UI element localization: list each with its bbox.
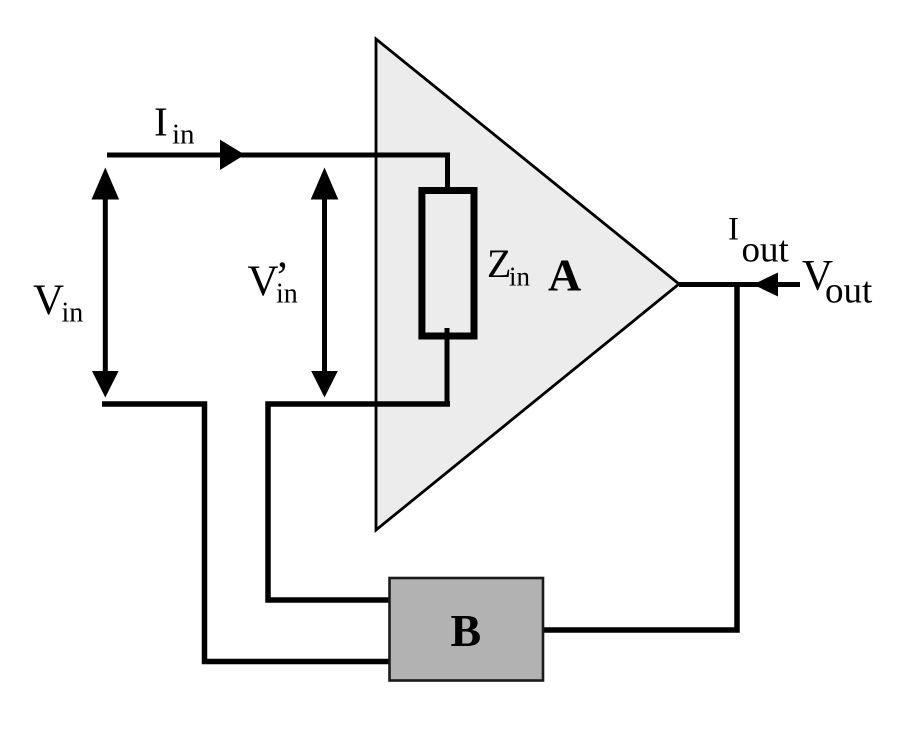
svg-text:in: in xyxy=(276,279,298,310)
feedback network B (box) xyxy=(390,578,544,681)
arrowhead I_out current direction (pointing left) xyxy=(753,273,778,297)
V_in measurement arrow (double headed) xyxy=(103,190,108,378)
svg-text:Z: Z xyxy=(487,241,511,286)
svg-text:V: V xyxy=(33,277,64,324)
wire V'_in bottom node to feedback network B input xyxy=(268,404,450,600)
svg-text:A: A xyxy=(548,250,581,301)
wire I_in input horizontal into Z_in top xyxy=(107,155,448,193)
svg-text:B: B xyxy=(451,605,482,656)
svg-text:out: out xyxy=(742,230,790,271)
op-amp A (triangle body) xyxy=(376,39,679,530)
wire V_in bottom to feedback path xyxy=(102,404,390,662)
wire feedback from output node down to B xyxy=(544,284,737,630)
svg-text:in: in xyxy=(509,262,531,292)
svg-text:in: in xyxy=(62,298,84,329)
svg-text:I: I xyxy=(154,99,168,145)
svg-text:V: V xyxy=(248,258,279,305)
V'_in measurement arrow (double headed) xyxy=(322,190,327,378)
svg-text:I: I xyxy=(728,212,739,248)
resistor Z_in xyxy=(422,191,474,337)
svg-text:in: in xyxy=(172,119,195,151)
arrowhead I_in current direction xyxy=(220,140,245,170)
svg-text:out: out xyxy=(825,271,873,312)
wire output from op-amp apex xyxy=(679,282,800,287)
wire Z_in bottom to lower node xyxy=(445,328,450,404)
